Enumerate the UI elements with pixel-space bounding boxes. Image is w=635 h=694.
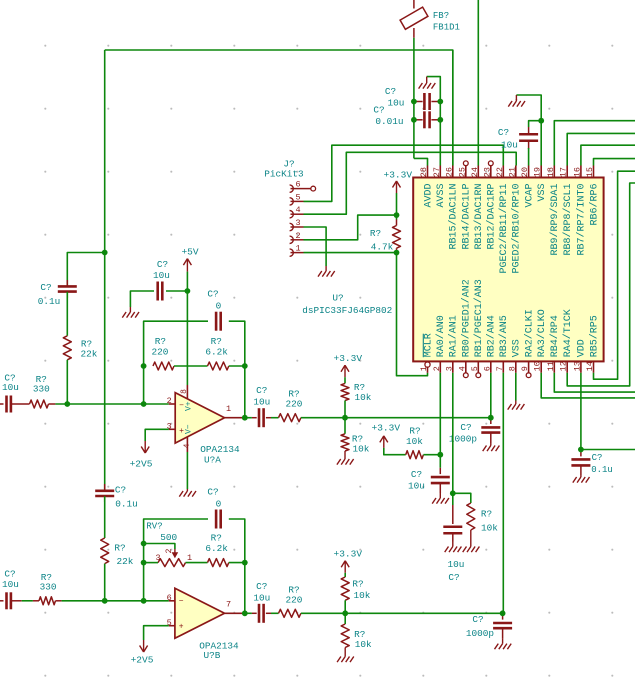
U? top pin 18 RB9/RP9/SDA1: [553, 166, 555, 178]
svg-text:RB12/DAC1RP: RB12/DAC1RP: [486, 183, 498, 249]
ground (AN1 cap): [452, 542, 454, 547]
junction (490.8,417.7): [488, 415, 494, 421]
svg-text:19: 19: [533, 167, 543, 177]
wire left vertical net x=105 (mid segment to coupling cap): [104, 253, 106, 491]
wire right rail down to output: [244, 366, 246, 418]
svg-text:500: 500: [160, 532, 177, 543]
ground (divider A): [344, 451, 346, 457]
wire below C5b: [104, 496, 106, 538]
ground (AVDD caps): [426, 77, 428, 81]
J? pin6 no-connect circle: [304, 188, 311, 190]
capacitor C? 10u (+5V bypass): [166, 290, 187, 292]
junction (244.8,562.6): [242, 560, 248, 566]
svg-text:10u: 10u: [253, 397, 270, 408]
svg-text:24: 24: [470, 167, 480, 177]
pin 2 stub U?A: [169, 403, 175, 405]
junction (413.9,101.5): [411, 99, 417, 105]
U?A input row y=404: coupling capacitor C? 10u: [0, 403, 4, 405]
junction (440.3,119.8): [437, 117, 443, 123]
svg-text:RB13/DAC1RN: RB13/DAC1RN: [473, 183, 485, 249]
svg-text:9: 9: [520, 366, 530, 371]
U? top pin 16 RB7/RP7/INT0: [580, 166, 582, 178]
resistor R? 10k (divider A lower): [341, 434, 349, 451]
wire J3 to ground: [304, 227, 327, 266]
output junction wire to C10u: [245, 417, 252, 419]
svg-text:13: 13: [572, 361, 582, 371]
resistor R? 22k (U?A chain): [63, 336, 71, 360]
no-connect circles bottom pins 4 5 9: [463, 373, 468, 378]
U? bottom pin 3 RA1/AN1: [452, 361, 454, 372]
J? pin 2: [290, 236, 294, 243]
svg-text:0.1u: 0.1u: [38, 296, 61, 307]
wire right rail down to output B: [244, 563, 246, 614]
wire +5V junction down to opamp V+ pin: [186, 291, 188, 385]
wire pin3 RA1/AN1 down: [452, 373, 454, 494]
wire pot right to R6.2k-B: [186, 562, 208, 564]
wire pin2 RA0/AN0 to RC node: [439, 373, 441, 455]
power symbol +2V5 (B): [143, 640, 145, 652]
svg-text:C?: C?: [373, 105, 384, 116]
svg-text:RB15/DAC1LN: RB15/DAC1LN: [448, 183, 460, 249]
svg-text:C?: C?: [472, 614, 483, 625]
svg-text:RA2/CLKI: RA2/CLKI: [523, 309, 535, 357]
wire pin13 VDD down to decoupling node: [580, 373, 582, 450]
U? bottom pin 7 RB3/AN5: [502, 361, 504, 372]
wire C0 right to right rail: [229, 321, 245, 366]
svg-text:C?: C?: [592, 453, 603, 463]
svg-text:RB14/DAC1LP: RB14/DAC1LP: [461, 183, 473, 249]
svg-text:RB2/AN4: RB2/AN4: [486, 315, 498, 357]
no-connect circles top pins 25 23: [463, 161, 468, 166]
svg-text:C?: C?: [411, 469, 422, 480]
svg-text:10u: 10u: [153, 270, 170, 281]
junction (413.9,119.8): [411, 117, 417, 123]
wire pin17 SCL1 to right edge: [567, 133, 635, 165]
svg-text:8: 8: [507, 366, 517, 371]
junction (143.6,366.0): [141, 363, 147, 369]
junction (396.5,252.6): [394, 250, 400, 256]
svg-text:2: 2: [167, 396, 172, 406]
capacitor C? 10u (VCAP): [529, 121, 542, 127]
junction (244.8,417.7): [242, 415, 248, 421]
capacitor C? 0 (U?A feedback): [215, 312, 218, 331]
wire U?A feedback left rail: [144, 321, 208, 404]
U? top pin 27 AVSS: [439, 166, 441, 178]
svg-text:26: 26: [444, 167, 454, 177]
junction (244.8,366.0): [242, 363, 248, 369]
U? bottom pin 12 RA4/T1CK: [566, 361, 568, 372]
lead from cap to R330: [11, 403, 30, 405]
svg-text:R?: R?: [155, 336, 166, 347]
wire pin3 to +2V5: [145, 429, 169, 441]
U? bottom pin 2 RA0/AN0: [439, 361, 441, 372]
wire left vertical net x=105 (top segment): [104, 50, 106, 253]
U? bottom pin 13 VDD: [580, 361, 582, 372]
ground (bypass cap A): [129, 307, 131, 312]
resistor R? 10k (divider B lower): [341, 624, 349, 648]
wire pin4 to ground: [186, 452, 188, 489]
U? bottom pin 6 RB2/AN4: [490, 361, 492, 372]
ground (VDD cap): [580, 475, 582, 477]
svg-text:R?: R?: [211, 336, 222, 347]
wire cap left to ground: [130, 291, 154, 307]
pin 6 stub U?B: [169, 600, 175, 602]
wire R330-B to opamp B pin6: [62, 600, 169, 602]
svg-text:220: 220: [286, 594, 303, 605]
wire below C 0.1u to R 22k: [66, 292, 68, 336]
svg-text:R?: R?: [370, 228, 381, 239]
svg-text:10k: 10k: [355, 639, 372, 650]
resistor R? 220 (U?A fb input): [153, 362, 174, 370]
junction (143.6,404.0): [141, 401, 147, 407]
svg-text:VDD: VDD: [577, 339, 588, 357]
svg-text:10u: 10u: [2, 579, 19, 590]
U? bottom pin 5 RB1/PGEC1/AN3: [477, 361, 479, 372]
ground (AN1 R): [470, 530, 472, 542]
wire pin5 to +2V5 (B): [144, 626, 169, 640]
capacitor C? 10u (U?B out): [252, 612, 257, 614]
svg-text:220: 220: [286, 398, 303, 409]
U? bottom pin 14 RB5/RP5: [593, 361, 595, 372]
svg-text:R?: R?: [352, 579, 363, 590]
svg-text:3: 3: [444, 366, 454, 371]
svg-text:AVSS: AVSS: [436, 184, 447, 208]
U? top pin 23 RB12/DAC1RP: [490, 166, 492, 178]
ground (1000p B): [502, 639, 504, 644]
pin 5 stub U?B: [169, 625, 175, 627]
ground (1000p A): [490, 443, 492, 446]
svg-text:6.2k: 6.2k: [205, 543, 228, 554]
U? top pin 19 VSS: [540, 166, 542, 178]
wire pin15 RB6 to right edge: [594, 159, 635, 166]
wire +3.3V arrow to R10k (AN0): [384, 448, 406, 455]
U? bottom pin 10 RA3/CLKO: [540, 361, 542, 372]
svg-text:+5V: +5V: [181, 247, 198, 258]
svg-text:10k: 10k: [355, 392, 372, 403]
junction (580.9,449.5): [578, 447, 584, 453]
svg-text:8: 8: [180, 389, 189, 394]
svg-text:RB4/RP4: RB4/RP4: [549, 315, 561, 357]
svg-text:4: 4: [295, 205, 300, 215]
U? bottom pin 1 MCLR: [425, 362, 430, 367]
svg-text:10k: 10k: [406, 436, 423, 447]
svg-text:5: 5: [470, 366, 480, 371]
svg-text:0.1u: 0.1u: [115, 499, 138, 510]
capacitor C? 0.1u (U?A chain): [66, 280, 68, 286]
svg-text:23: 23: [482, 167, 492, 177]
junction (143.6,543.5): [141, 541, 147, 547]
svg-text:V+: V+: [184, 401, 193, 411]
output junction wire to C10u (B): [245, 612, 252, 614]
svg-text:C?: C?: [4, 569, 15, 580]
svg-text:RB7/RP7/INT0: RB7/RP7/INT0: [576, 184, 588, 256]
wire pot left to rail: [144, 562, 158, 564]
junction (345.0,417.7): [342, 415, 348, 421]
wire R330 to opamp A pin2: [55, 403, 168, 405]
pin 3 stub U?A: [169, 428, 175, 430]
svg-text:3: 3: [295, 218, 300, 228]
wire MCLR junction down to IC pin 1: [397, 253, 428, 376]
svg-text:FB?: FB?: [433, 11, 449, 21]
svg-text:C?: C?: [157, 259, 168, 270]
svg-text:6: 6: [167, 593, 172, 603]
wire +5V down to junction: [186, 272, 188, 291]
wire VDD node to right edge: [581, 449, 635, 451]
U? bottom pin 9 RA2/CLKI: [528, 361, 530, 372]
svg-text:20: 20: [520, 167, 530, 177]
svg-text:OPA2134: OPA2134: [200, 444, 240, 455]
capacitor C? 10u (AVDD): [414, 101, 423, 103]
svg-text:12: 12: [559, 361, 569, 371]
wire R10k to AN0 junction: [423, 454, 440, 456]
svg-text:RA4/T1CK: RA4/T1CK: [562, 309, 574, 357]
wire pin12 RA4/T1CK wrap to right edge: [567, 183, 635, 386]
svg-text:2: 2: [295, 231, 300, 241]
wire cap to R220 out (B): [271, 612, 279, 614]
svg-text:0: 0: [216, 301, 222, 312]
svg-text:C?: C?: [207, 486, 218, 497]
svg-text:VSS: VSS: [537, 184, 548, 202]
svg-text:10k: 10k: [353, 443, 370, 454]
ground (J3): [325, 266, 327, 271]
U? bottom pin 4 RB0/PGED1/AN2: [465, 361, 467, 372]
svg-text:16: 16: [572, 167, 582, 177]
wire pin10 RA3/CLKO to right edge: [541, 373, 635, 398]
svg-text:RB0/PGED1/AN2: RB0/PGED1/AN2: [461, 279, 473, 357]
svg-text:+3.3V: +3.3V: [372, 423, 401, 434]
svg-text:RV?: RV?: [146, 521, 162, 531]
wire R10k to junction: [344, 401, 346, 418]
wire below R22k to U?A input row: [66, 360, 68, 404]
wire R220-B to divider junction to AN5 node: [301, 612, 503, 614]
resistor R? 10k (AN0 bias): [406, 451, 424, 459]
svg-text:U?A: U?A: [204, 455, 221, 466]
svg-text:MCLR: MCLR: [423, 333, 434, 357]
svg-text:6: 6: [482, 366, 492, 371]
svg-text:PGED2/RB10/RP10: PGED2/RB10/RP10: [511, 184, 523, 274]
wire U?B feedback left rail: [144, 519, 208, 601]
svg-text:+2V5: +2V5: [131, 655, 154, 666]
svg-text:1: 1: [295, 244, 300, 254]
svg-text:R?: R?: [211, 533, 222, 544]
svg-text:PicKit3: PicKit3: [264, 169, 304, 180]
J? pin 6: [290, 185, 294, 192]
ground (AN0 cap): [439, 493, 441, 498]
wire pin14 RB5/RP5 wrap to right edge: [594, 171, 635, 379]
svg-text:+3.3V: +3.3V: [334, 549, 363, 560]
svg-text:+3.3V: +3.3V: [384, 170, 413, 181]
svg-text:6: 6: [295, 180, 300, 190]
wire C0b right to right rail: [229, 519, 245, 563]
junction (143.6,600.8): [141, 598, 147, 604]
junction (502.6,613.3): [500, 610, 506, 616]
wire AVSS rail caps right side: [439, 102, 441, 120]
svg-text:+: +: [179, 623, 184, 632]
svg-text:C?: C?: [256, 385, 267, 396]
U? top pin 24 RB13/DAC1RN: [477, 166, 479, 178]
wire +3.3V to R4.7k: [396, 193, 398, 215]
wire pin 26 DAC1LN long net: [452, 50, 454, 166]
svg-text:RA3/CLKO: RA3/CLKO: [536, 309, 548, 357]
svg-text:U?B: U?B: [204, 650, 221, 661]
wire pin8 VSS to ground: [515, 373, 517, 401]
svg-text:18: 18: [546, 167, 556, 177]
svg-text:RA1/AN1: RA1/AN1: [448, 315, 460, 357]
svg-text:RA0/AN0: RA0/AN0: [435, 315, 447, 357]
junction (187.4,291.0): [185, 288, 191, 294]
svg-text:10k: 10k: [481, 523, 498, 534]
svg-text:C?: C?: [256, 581, 267, 592]
wire junction to R10k lower (B): [344, 613, 346, 624]
svg-text:4: 4: [457, 366, 467, 371]
svg-text:5: 5: [295, 192, 300, 202]
J? pin 4: [290, 211, 294, 218]
resistor R? 10k (divider B upper): [341, 577, 349, 600]
wire J1 MCLR to pull-up junction: [304, 252, 397, 254]
capacitor C? 10u (AN0): [439, 455, 441, 468]
J? pin 3: [290, 223, 294, 230]
wiper wire of RV: [144, 544, 175, 550]
wire +3.3V to R10k upper: [344, 377, 346, 383]
IC U? dsPIC33FJ64GP802 body: [413, 178, 603, 362]
svg-text:U?: U?: [332, 293, 343, 304]
junction (345.2,613.3): [342, 610, 348, 616]
svg-text:2: 2: [432, 366, 442, 371]
J? pin 5: [290, 198, 294, 205]
wire bus from DAC1LN line: top horizontal net: [105, 50, 453, 166]
svg-text:RB3/AN5: RB3/AN5: [498, 315, 510, 357]
wire pin7 RB3/AN5 down to output row B: [502, 373, 504, 614]
pin 8 stub U?A V+: [186, 385, 188, 399]
junction (440.3,454.7): [437, 452, 443, 458]
branch wire from x=105 to U?A RC chain: [67, 253, 104, 287]
resistor R? 220 (U?A out): [279, 414, 301, 422]
junction (452.8,493.3): [450, 490, 456, 496]
svg-text:C?: C?: [498, 127, 509, 138]
wire R6.2k right to rail: [229, 365, 245, 367]
junction (541.2,120.7): [538, 118, 544, 124]
svg-text:RB5/RP5: RB5/RP5: [588, 315, 600, 357]
svg-text:+3.3V: +3.3V: [334, 353, 363, 364]
svg-text:R?: R?: [409, 426, 420, 437]
svg-text:1: 1: [419, 366, 429, 371]
svg-text:AVDD: AVDD: [423, 184, 434, 208]
resistor R? 4.7k pull-up: [396, 215, 398, 219]
U? top pin 17 RB8/RP8/SCL1: [566, 166, 568, 178]
wire R10k to junction (B): [344, 600, 346, 613]
junction (396.5,215.1): [394, 212, 400, 218]
wire between R220 and R6.2k: [174, 365, 208, 367]
ground (VSS top): [515, 95, 517, 100]
svg-text:4: 4: [183, 443, 192, 448]
U? bottom pin 8 VSS: [515, 361, 517, 372]
U? top pin 22 PGEC2/RB11/RP11: [502, 166, 504, 178]
svg-text:10k: 10k: [354, 590, 371, 601]
resistor R? 10k (AN1): [467, 503, 475, 530]
svg-text:22k: 22k: [117, 556, 134, 567]
wire R220 to divider junction to AN4: [301, 417, 491, 419]
svg-text:10u: 10u: [388, 98, 405, 109]
pin 4 stub U?A V-: [186, 437, 188, 452]
svg-text:10: 10: [533, 361, 543, 371]
capacitor C? 0.1u (VDD): [580, 450, 582, 457]
svg-text:14: 14: [585, 361, 595, 371]
wire R6.2k-B right to rail: [229, 562, 245, 564]
wire pin18 SDA1 to right edge: [554, 121, 635, 166]
svg-text:0.01u: 0.01u: [375, 116, 403, 127]
svg-text:4.7k: 4.7k: [371, 242, 394, 253]
svg-text:−: −: [179, 597, 184, 606]
resistor R? 330 (U?A input): [30, 400, 49, 408]
svg-text:10u: 10u: [253, 593, 270, 604]
capacitor C? 0 (U?B feedback): [215, 510, 218, 529]
capacitor C? 10u (AN1): [452, 493, 454, 505]
svg-text:RB8/RP8/SCL1: RB8/RP8/SCL1: [562, 184, 574, 256]
junction (104.7,252.5): [102, 250, 108, 256]
wire pin6 RB2/AN4 down to output row: [490, 373, 492, 418]
wire VSS pin19 to ground and VCAP: [516, 95, 541, 166]
svg-text:RB6/RP6: RB6/RP6: [588, 184, 600, 226]
resistor R? 220 (U?B out): [279, 609, 301, 617]
U? top pin 20 VCAP: [528, 166, 530, 178]
svg-text:28: 28: [419, 167, 429, 177]
wire J2 to +3.3V node: [304, 215, 397, 240]
svg-text:330: 330: [33, 384, 50, 395]
svg-text:C?: C?: [207, 289, 218, 300]
junction (67.3,404.0): [64, 401, 70, 407]
wire AVDD rail through caps to pin 28: [413, 102, 415, 120]
wire +3.3V to R10k upper (B): [344, 573, 346, 577]
svg-text:6.2k: 6.2k: [205, 347, 228, 358]
svg-text:22: 22: [495, 167, 505, 177]
op-amp U?A OPA2134: [175, 393, 224, 444]
svg-text:21: 21: [507, 167, 517, 177]
svg-text:VCAP: VCAP: [524, 184, 535, 208]
svg-text:RB9/RP9/SDA1: RB9/RP9/SDA1: [549, 184, 561, 256]
wire pin 24 to top edge: [477, 0, 479, 166]
resistor R? 10k (divider A upper): [341, 383, 349, 400]
U? top pin 21 PGED2/RB10/RP10: [515, 166, 517, 178]
junction (244.8,613.3): [242, 610, 248, 616]
J? pin 1: [290, 249, 294, 256]
capacitor C5b 0.1u in-line on x=105: [104, 484, 106, 491]
svg-text:V−: V−: [184, 424, 193, 434]
svg-text:3: 3: [167, 422, 172, 432]
svg-text:220: 220: [152, 347, 169, 358]
wire J5 PGC to PGEC2 pin22: [304, 145, 504, 201]
resistor R22k-B in-line on x=105: [101, 538, 109, 564]
svg-text:1000p: 1000p: [466, 628, 494, 639]
U? top pin 28 AVDD: [427, 166, 429, 178]
capacitor C? 1000p (AN5): [502, 613, 504, 619]
resistor R? 330 (U?B input): [39, 597, 56, 605]
svg-text:27: 27: [432, 167, 442, 177]
wire below R22k-B to U?B input row: [104, 564, 106, 601]
svg-text:PGEC2/RB11/RP11: PGEC2/RB11/RP11: [498, 183, 510, 273]
capacitor C? 10u (U?A out): [252, 417, 257, 419]
svg-text:C?: C?: [460, 422, 471, 433]
wire J4 PGD to PGED2 pin21: [304, 152, 517, 214]
svg-text:0: 0: [216, 498, 222, 509]
capacitor C? 0.01u (AVDD): [414, 119, 423, 121]
op-amp U?B OPA2134: [175, 588, 225, 638]
svg-text:FB1D1: FB1D1: [433, 23, 460, 33]
ferrite bead FB? FB1D1: [413, 0, 415, 9]
ground (VSS bottom): [515, 401, 517, 405]
wire junction AN1 to R10k: [453, 493, 471, 503]
svg-text:C?: C?: [40, 282, 51, 293]
svg-text:17: 17: [559, 167, 569, 177]
